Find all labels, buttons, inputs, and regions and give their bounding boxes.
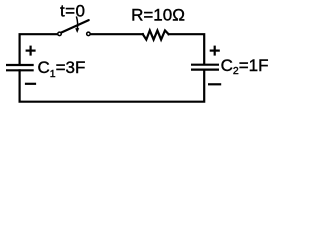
wire from resistor to top-right corner and right rail upper: [169, 34, 205, 63]
wire from switch to resistor: [91, 33, 143, 35]
switch right contact circle: [87, 32, 91, 36]
wire top-left segment and left rail: [20, 34, 58, 64]
polarity plus of C2: [210, 46, 220, 56]
svg-text:R=10Ω: R=10Ω: [131, 6, 185, 25]
capacitor C2 plates: [191, 65, 219, 70]
polarity minus of C2: [208, 83, 221, 85]
svg-text:t=0: t=0: [60, 1, 85, 20]
polarity plus of C1: [26, 46, 36, 56]
capacitor C1 plates: [6, 65, 34, 70]
switch SW (t=0): left contact circle: [58, 32, 62, 36]
polarity minus of C1: [25, 83, 36, 85]
svg-text:C1=3F: C1=3F: [38, 58, 86, 80]
svg-text:C2=1F: C2=1F: [221, 56, 269, 77]
resistor R=10 ohm zigzag: [143, 31, 169, 40]
switch blade: [61, 20, 88, 32]
switch actuation arrow: [76, 16, 77, 28]
bottom wire with left and right lower leads: [20, 70, 205, 102]
